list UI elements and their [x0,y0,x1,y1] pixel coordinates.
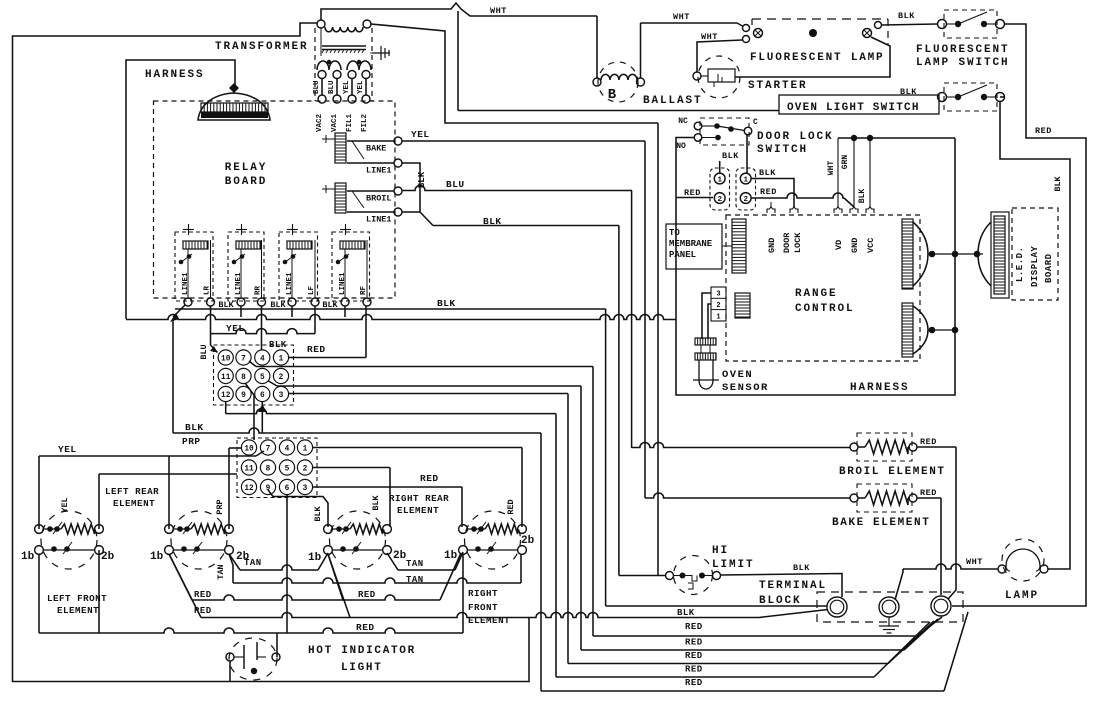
svg-text:VAC1: VAC1 [331,113,339,132]
svg-text:FIL1: FIL1 [346,113,354,132]
svg-text:RED: RED [356,622,375,633]
svg-text:NC: NC [678,117,688,126]
svg-text:BLU: BLU [446,179,465,190]
svg-text:5: 5 [285,465,290,473]
svg-text:LOCK: LOCK [793,232,803,253]
svg-text:GND: GND [767,238,777,253]
svg-text:RED: RED [194,590,212,600]
svg-text:RR: RR [255,285,263,295]
svg-text:1b: 1b [21,551,35,563]
svg-text:FLUORESCENT: FLUORESCENT [916,44,1010,56]
svg-text:LINE1: LINE1 [182,272,190,295]
svg-text:BLK: BLK [759,168,776,178]
svg-text:VAC2: VAC2 [316,113,324,132]
svg-text:LINE1: LINE1 [235,272,243,295]
svg-text:2: 2 [716,302,720,310]
svg-text:DISPLAY: DISPLAY [1030,246,1040,287]
svg-text:LAMP SWITCH: LAMP SWITCH [916,57,1010,69]
svg-text:TO: TO [669,228,680,238]
svg-text:9: 9 [241,392,246,400]
svg-text:NO: NO [676,142,686,151]
svg-text:LIGHT: LIGHT [341,662,383,674]
svg-text:7: 7 [241,355,246,363]
svg-text:BLK: BLK [722,151,739,161]
svg-text:LAMP: LAMP [1005,590,1039,602]
svg-text:BLK: BLK [371,494,381,510]
svg-text:RED: RED [194,606,212,616]
svg-text:1b: 1b [150,551,164,563]
svg-text:C: C [753,118,758,127]
svg-text:BLK: BLK [793,563,810,573]
svg-text:RED: RED [358,590,376,600]
svg-text:OVEN LIGHT SWITCH: OVEN LIGHT SWITCH [787,102,920,114]
svg-text:HI: HI [712,545,729,557]
svg-text:ELEMENT: ELEMENT [397,505,439,516]
svg-text:BLK: BLK [218,300,234,310]
svg-text:RED: RED [1035,126,1052,136]
svg-text:YEL: YEL [357,80,365,94]
svg-text:OVEN: OVEN [722,369,753,381]
svg-text:6: 6 [260,392,265,400]
svg-text:L.E.D.: L.E.D. [1015,247,1025,282]
svg-text:VD: VD [834,240,844,250]
svg-text:BROIL: BROIL [366,194,392,204]
svg-text:4: 4 [260,355,265,363]
svg-text:RED: RED [684,188,701,198]
svg-text:BLK: BLK [322,300,338,310]
svg-text:TAN: TAN [406,575,424,585]
svg-text:6: 6 [285,485,290,493]
svg-text:LEFT REAR: LEFT REAR [105,486,159,497]
svg-text:WHT: WHT [701,32,718,42]
svg-text:8: 8 [241,374,246,382]
svg-text:RED: RED [307,344,326,355]
svg-text:YEL: YEL [58,444,77,455]
svg-text:2b: 2b [521,535,535,547]
svg-text:1: 1 [279,355,284,363]
svg-text:RED: RED [685,638,703,648]
svg-text:BOARD: BOARD [225,176,268,188]
svg-text:BALLAST: BALLAST [643,95,703,107]
svg-text:PRP: PRP [215,499,225,514]
svg-text:BOARD: BOARD [1044,253,1054,283]
svg-text:WHT: WHT [827,161,836,176]
svg-text:WHT: WHT [490,6,507,16]
svg-text:BAKE: BAKE [366,144,386,154]
svg-text:2: 2 [743,196,748,204]
svg-text:YEL: YEL [411,129,430,140]
svg-text:1b: 1b [308,552,322,564]
svg-text:RED: RED [685,678,703,688]
svg-text:ELEMENT: ELEMENT [113,498,155,509]
svg-text:2: 2 [303,465,308,473]
svg-text:10: 10 [221,355,231,363]
svg-text:HARNESS: HARNESS [850,382,910,394]
svg-text:5: 5 [260,374,265,382]
svg-text:RF: RF [360,285,368,295]
svg-text:BLK: BLK [900,87,917,97]
svg-text:LINE1: LINE1 [366,215,392,225]
svg-text:HOT INDICATOR: HOT INDICATOR [308,645,416,657]
svg-text:1: 1 [743,176,748,184]
svg-text:FIL2: FIL2 [361,113,369,132]
svg-text:8: 8 [266,465,271,473]
svg-text:2b: 2b [101,551,115,563]
svg-text:GRN: GRN [841,155,850,170]
svg-text:ELEMENT: ELEMENT [468,615,510,626]
svg-text:BLK: BLK [483,216,502,227]
svg-text:1: 1 [716,313,720,321]
svg-text:RIGHT: RIGHT [468,588,498,599]
svg-text:BLU: BLU [328,80,336,94]
svg-text:TAN: TAN [244,558,262,568]
svg-text:RED: RED [685,665,703,675]
svg-text:BLK: BLK [858,189,867,204]
svg-text:BLU: BLU [199,344,209,359]
svg-text:PANEL: PANEL [669,250,696,260]
svg-text:LINE1: LINE1 [339,272,347,295]
svg-text:LR: LR [204,285,212,295]
svg-text:GND: GND [850,238,860,253]
svg-text:BLK: BLK [313,505,323,521]
svg-text:TAN: TAN [216,564,226,579]
svg-text:BLK: BLK [437,298,456,309]
svg-text:RELAY: RELAY [225,162,268,174]
svg-text:YEL: YEL [60,497,70,512]
svg-text:2: 2 [279,374,284,382]
svg-text:LIMIT: LIMIT [712,559,755,571]
svg-text:BLK: BLK [1053,175,1063,191]
svg-text:RED: RED [420,473,439,484]
svg-text:BLK: BLK [677,608,695,618]
svg-text:11: 11 [221,374,231,382]
svg-text:LEFT FRONT: LEFT FRONT [47,593,107,604]
svg-text:RIGHT REAR: RIGHT REAR [389,493,449,504]
svg-text:MEMBRANE: MEMBRANE [669,239,713,249]
svg-text:RED: RED [506,499,516,514]
svg-text:HARNESS: HARNESS [145,69,205,81]
svg-text:LINE1: LINE1 [286,272,294,295]
svg-text:FRONT: FRONT [468,602,498,613]
svg-text:RANGE: RANGE [795,288,838,300]
svg-text:BLK: BLK [898,11,915,21]
svg-text:CONTROL: CONTROL [795,303,855,315]
svg-text:RED: RED [685,651,703,661]
svg-text:WHT: WHT [966,557,983,567]
svg-text:2: 2 [717,196,722,204]
svg-text:3: 3 [279,392,284,400]
svg-text:3: 3 [303,485,308,493]
svg-text:SENSOR: SENSOR [722,382,769,394]
svg-text:TERMINAL: TERMINAL [759,580,827,592]
svg-text:RED: RED [685,622,703,632]
svg-text:WHT: WHT [673,12,690,22]
svg-text:SWITCH: SWITCH [757,144,808,156]
svg-text:DOOR LOCK: DOOR LOCK [757,131,834,143]
svg-text:RED: RED [920,488,937,498]
svg-text:TRANSFORMER: TRANSFORMER [215,41,309,53]
svg-text:LINE1: LINE1 [366,166,392,176]
svg-text:1b: 1b [444,550,458,562]
svg-text:BLOCK: BLOCK [759,595,802,607]
svg-text:3: 3 [716,291,720,299]
svg-text:10: 10 [244,445,254,453]
svg-text:1: 1 [717,176,722,184]
svg-text:FLUORESCENT LAMP: FLUORESCENT LAMP [750,52,884,64]
svg-text:B: B [608,87,617,103]
svg-text:4: 4 [285,445,290,453]
svg-text:ELEMENT: ELEMENT [57,605,99,616]
svg-text:BROIL ELEMENT: BROIL ELEMENT [839,466,946,478]
svg-text:12: 12 [221,392,231,400]
svg-text:DOOR: DOOR [782,232,792,253]
svg-text:BAKE ELEMENT: BAKE ELEMENT [832,517,930,529]
svg-text:11: 11 [244,465,254,473]
svg-text:2b: 2b [393,550,407,562]
svg-text:PRP: PRP [182,436,201,447]
svg-text:YEL: YEL [226,323,245,334]
svg-text:12: 12 [244,485,254,493]
svg-text:7: 7 [266,445,271,453]
svg-text:RED: RED [760,187,777,197]
svg-text:BLK: BLK [270,300,286,310]
svg-text:BLK: BLK [185,422,204,433]
svg-text:YEL: YEL [343,80,351,94]
svg-text:1: 1 [303,445,308,453]
svg-text:BLU: BLU [313,80,321,94]
svg-text:STARTER: STARTER [748,80,808,92]
svg-text:TAN: TAN [406,559,424,569]
svg-text:VCC: VCC [866,238,876,253]
svg-text:RED: RED [920,437,937,447]
svg-text:LF: LF [308,285,316,295]
